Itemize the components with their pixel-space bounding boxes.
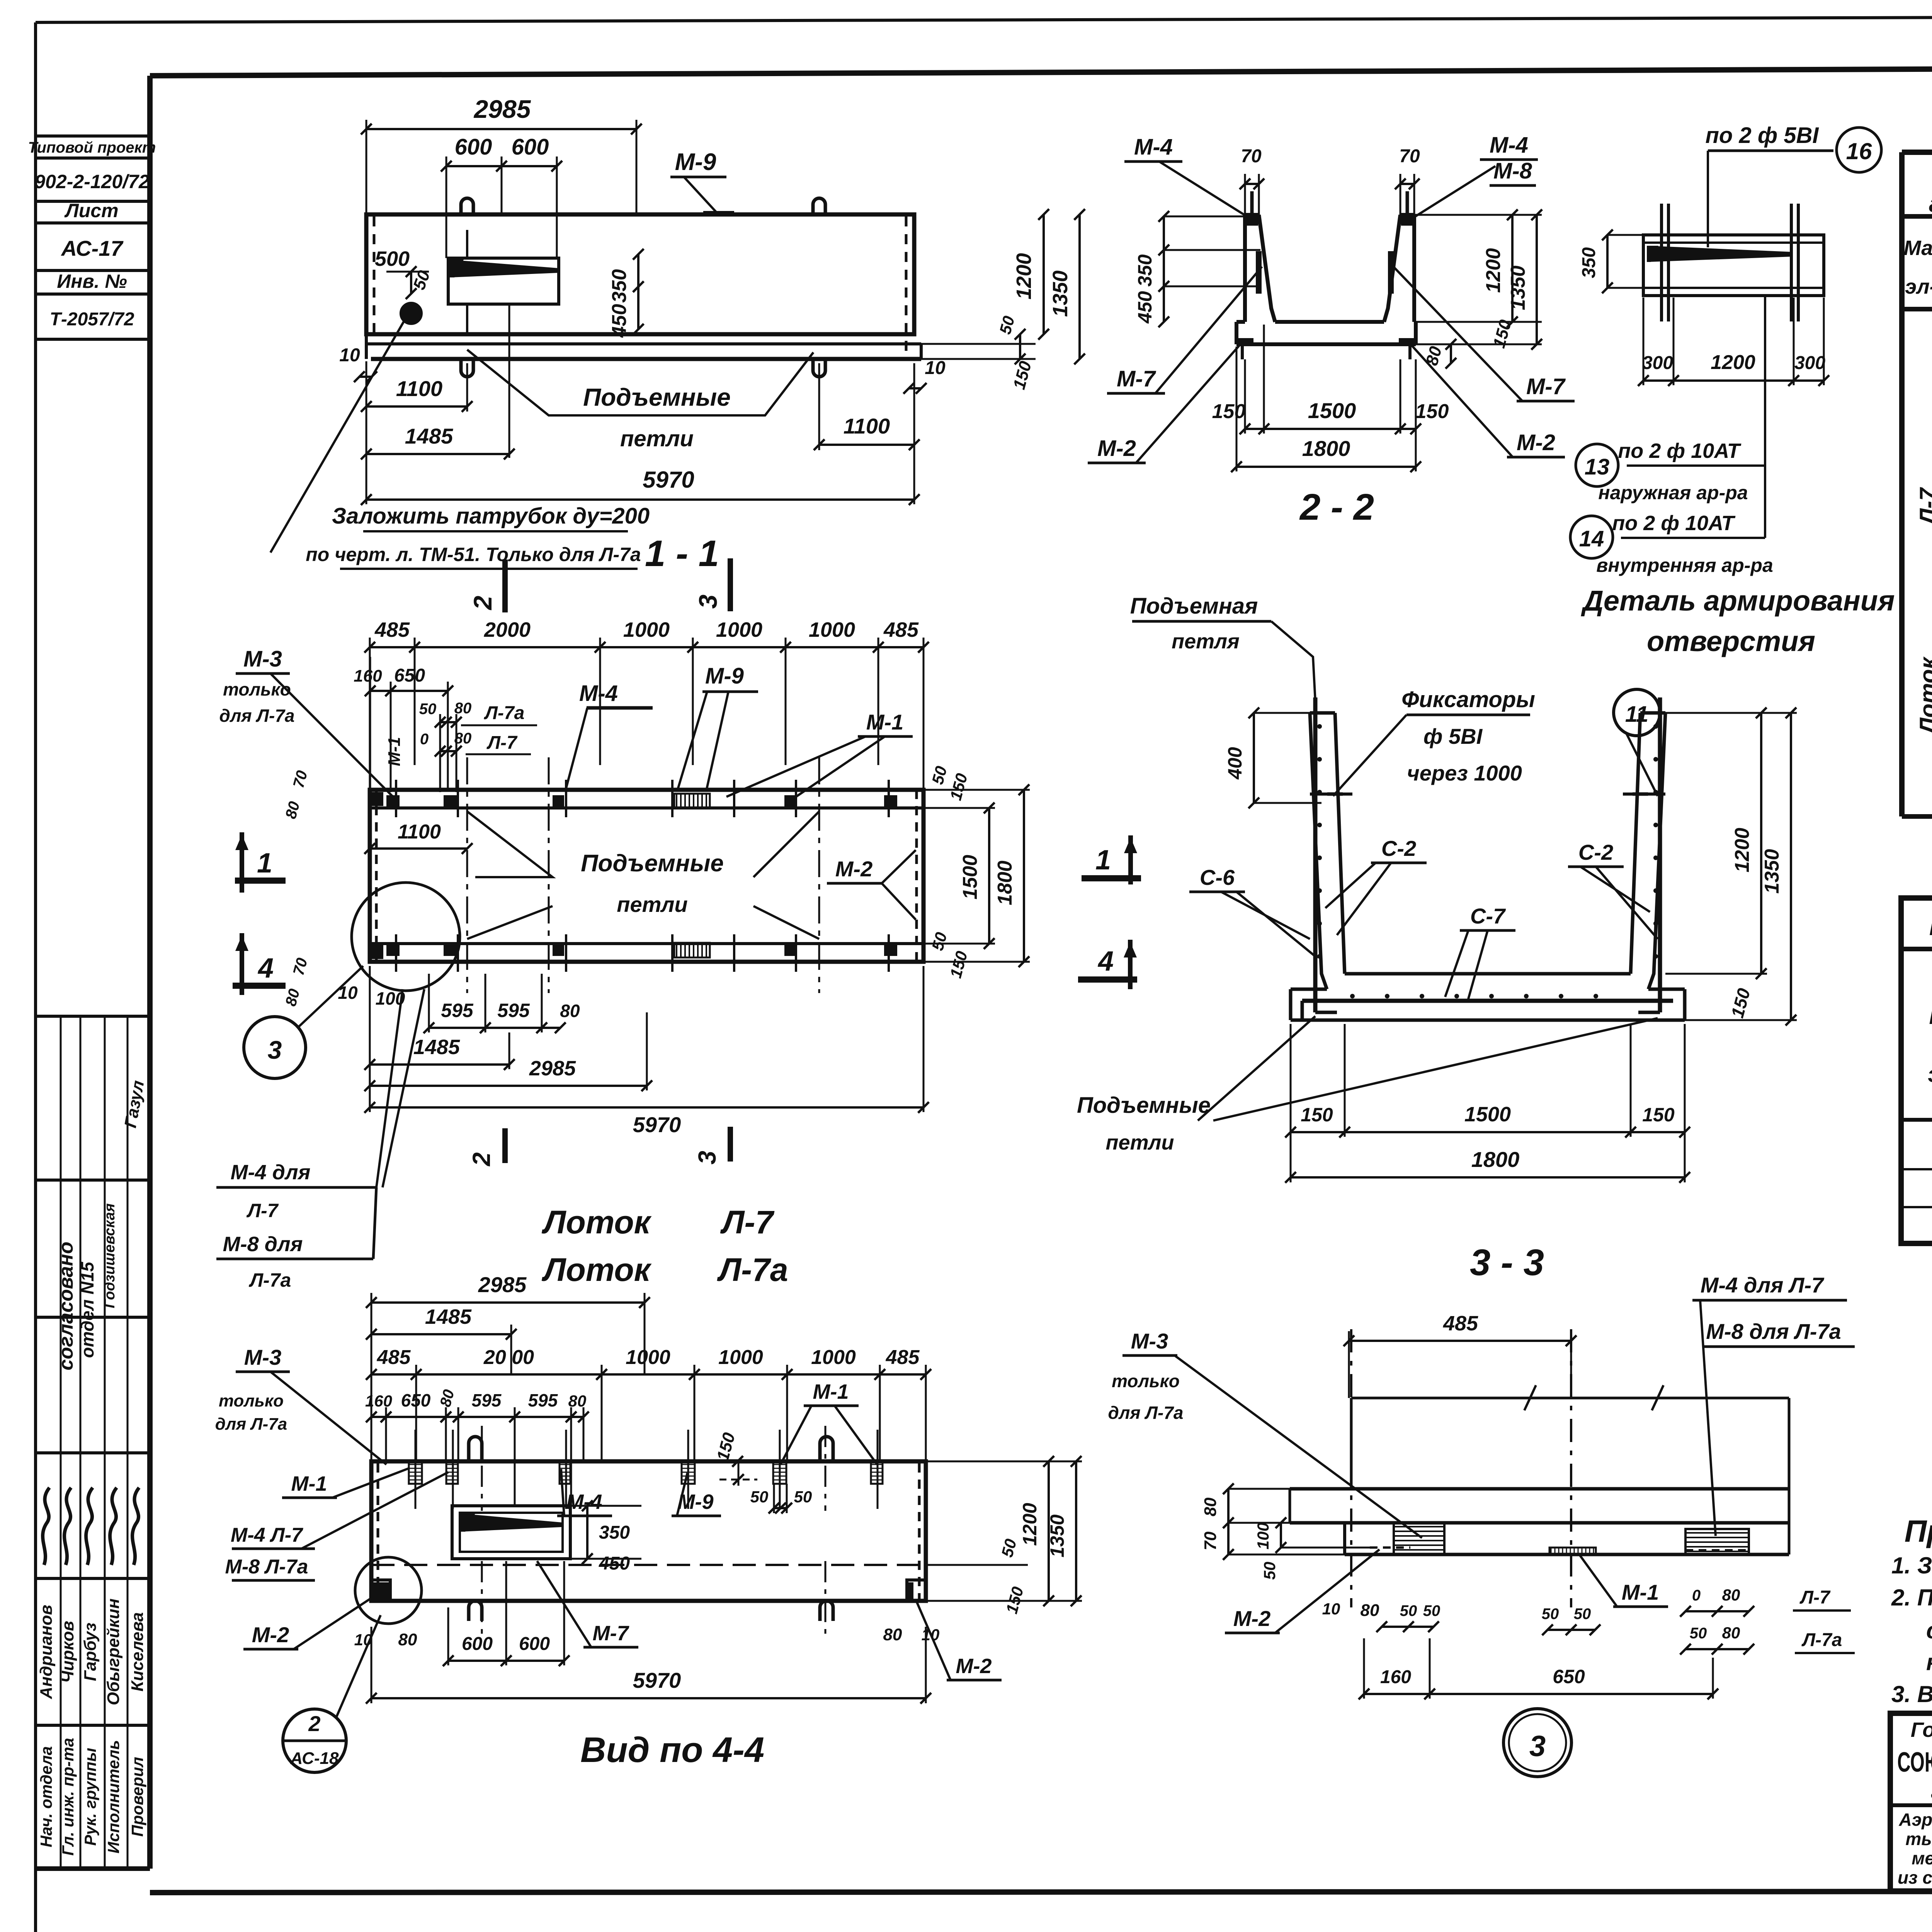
svg-text:Л-7: Л-7 xyxy=(486,733,518,753)
plan view: left labels M-3 M-1 xyxy=(219,646,404,798)
svg-text:Рук. группы: Рук. группы xyxy=(81,1748,99,1846)
svg-text:М-9: М-9 xyxy=(705,663,744,689)
svg-text:1000: 1000 xyxy=(716,618,762,641)
svg-text:3. В местах отверстий: 3. В местах отверстий арматуру сеток обр… xyxy=(1891,1681,1932,1707)
plan view: small rotated dims 70 80 left xyxy=(282,769,311,1008)
svg-text:1200: 1200 xyxy=(1012,253,1036,299)
svg-text:3: 3 xyxy=(268,1036,282,1064)
left stamp: roles rotated xyxy=(37,1738,146,1856)
svg-text:600: 600 xyxy=(519,1634,550,1654)
svg-text:Л-7: Л-7 xyxy=(247,1200,279,1221)
plan view: podjemnye petli label with leaders xyxy=(467,811,819,939)
svg-text:М-3: М-3 xyxy=(243,646,282,672)
section 3-3: dim 400 left xyxy=(1224,707,1321,808)
view 1-1: dims 350 450 at opening xyxy=(608,249,644,338)
svg-text:Обыгрейкин: Обыгрейкин xyxy=(104,1599,123,1706)
svg-text:М-2: М-2 xyxy=(252,1622,289,1647)
svg-text:902-2-120/72: 902-2-120/72 xyxy=(34,171,150,192)
svg-text:1200: 1200 xyxy=(1711,351,1755,374)
svg-text:петли: петли xyxy=(617,892,687,917)
view 1-1: dims 600 600 xyxy=(441,134,562,258)
svg-text:Годзишевская: Годзишевская xyxy=(102,1203,118,1308)
svg-text:485: 485 xyxy=(886,1346,920,1369)
svg-text:1350: 1350 xyxy=(1049,270,1072,317)
svg-text:3: 3 xyxy=(694,595,722,609)
svg-text:500: 500 xyxy=(375,247,410,270)
svg-text:50: 50 xyxy=(1423,1602,1440,1619)
plan view: mesh ticks and plates bottom wall xyxy=(372,934,897,972)
svg-text:отдел N15: отдел N15 xyxy=(77,1261,97,1358)
section 3-3: mesh bars with dots xyxy=(1302,697,1673,1020)
svg-text:3: 3 xyxy=(1529,1730,1546,1763)
svg-text:1500: 1500 xyxy=(1464,1103,1511,1126)
svg-text:1000: 1000 xyxy=(811,1346,856,1369)
svg-text:1000: 1000 xyxy=(626,1346,670,1369)
svg-text:1200: 1200 xyxy=(1482,248,1505,293)
view 1-1: label M-9 with leader xyxy=(670,149,734,216)
svg-text:1800: 1800 xyxy=(994,861,1016,905)
section 2-2: left dims 350 450 xyxy=(1134,211,1260,327)
svg-text:Гарбуз: Гарбуз xyxy=(81,1622,100,1681)
svg-text:2: 2 xyxy=(308,1711,320,1736)
svg-text:С-6: С-6 xyxy=(1200,865,1235,889)
svg-text:450: 450 xyxy=(599,1553,630,1574)
opening reinforcement detail: label po 2 f 5BI and circle 16 xyxy=(1705,123,1881,247)
plan view: top dim row 485 2000 1000 1000 1000 485 xyxy=(364,618,929,790)
section 2-2: embedded parts black marks xyxy=(1238,191,1414,359)
svg-text:1200: 1200 xyxy=(1731,828,1753,872)
plan view: labels M-4 M-9 M-1 top xyxy=(566,663,913,797)
table vyborka armaturnykh i zakladnykh izdeliy xyxy=(1902,152,1932,828)
svg-text:70: 70 xyxy=(1399,146,1420,167)
svg-text:50: 50 xyxy=(1690,1625,1707,1642)
svg-text:350: 350 xyxy=(599,1522,630,1543)
svg-text:Марка: Марка xyxy=(1929,1004,1932,1029)
svg-text:для Л-7а: для Л-7а xyxy=(1108,1403,1183,1423)
opening reinforcement detail: circles 13 14 with texts xyxy=(1570,296,1773,576)
opening reinforcement detail: caption xyxy=(1580,585,1895,657)
detail 3: labels M-4 M-8 top right xyxy=(1692,1273,1855,1536)
svg-text:595: 595 xyxy=(528,1390,558,1410)
plan view: right dims 50 150 1500 1800 xyxy=(923,764,1030,980)
section 2-2: caption xyxy=(1299,486,1374,528)
view 4-4: right dims 1200 1350 50 150 xyxy=(926,1456,1082,1616)
svg-text:Л-7а: Л-7а xyxy=(484,703,524,723)
svg-text:600: 600 xyxy=(512,134,549,160)
plan view: detail circle on corner xyxy=(352,883,460,991)
svg-text:1500: 1500 xyxy=(1308,398,1356,423)
svg-text:М-2: М-2 xyxy=(1097,436,1136,461)
svg-text:1000: 1000 xyxy=(809,618,855,641)
svg-text:150: 150 xyxy=(1301,1104,1333,1126)
svg-text:Типовой проект: Типовой проект xyxy=(28,139,156,156)
svg-text:350: 350 xyxy=(1134,254,1156,287)
svg-text:М-7: М-7 xyxy=(1117,366,1156,391)
svg-text:80: 80 xyxy=(398,1630,417,1649)
svg-text:по 2 ф 10АТ: по 2 ф 10АТ xyxy=(1612,512,1735,535)
svg-text:150: 150 xyxy=(1212,400,1246,423)
svg-text:М-1: М-1 xyxy=(813,1380,849,1403)
svg-text:Примечания: Примечания xyxy=(1905,1514,1932,1548)
svg-text:эл-та: эл-та xyxy=(1928,1062,1932,1087)
svg-text:1. Защитный слой бето: 1. Защитный слой бетона - 20 мм xyxy=(1891,1553,1932,1578)
svg-text:2 - 2: 2 - 2 xyxy=(1299,486,1374,528)
svg-text:петли: петли xyxy=(1106,1131,1174,1154)
view 4-4: dashed mid line xyxy=(371,1564,926,1566)
svg-text:1350: 1350 xyxy=(1507,265,1529,310)
plan view: bottom dims 1485 2985 5970 xyxy=(364,966,929,1137)
svg-text:10: 10 xyxy=(339,345,360,366)
svg-text:11: 11 xyxy=(1625,702,1648,727)
svg-text:20 00: 20 00 xyxy=(483,1346,534,1369)
svg-text:2000: 2000 xyxy=(484,618,531,641)
svg-text:отверстия: отверстия xyxy=(1647,625,1815,657)
section 3-3: channel with reinforcement xyxy=(1291,713,1685,1020)
svg-text:50: 50 xyxy=(794,1488,812,1506)
svg-text:450: 450 xyxy=(1134,291,1156,324)
svg-text:1100: 1100 xyxy=(398,821,441,843)
svg-text:650: 650 xyxy=(1553,1666,1585,1687)
section 2-2: right dims 1200 1350 150 80 xyxy=(1414,209,1542,369)
svg-text:450: 450 xyxy=(608,304,631,338)
svg-text:М-2: М-2 xyxy=(956,1655,992,1678)
svg-text:М-8 для: М-8 для xyxy=(223,1233,303,1256)
svg-text:Аэротенки- смесители че-: Аэротенки- смесители че- xyxy=(1898,1810,1932,1830)
svg-text:из сборного железобетона.: из сборного железобетона. xyxy=(1898,1867,1932,1888)
svg-text:Л-7: Л-7 xyxy=(1915,487,1932,526)
svg-text:1100: 1100 xyxy=(396,376,442,401)
svg-text:внутренняя ар-ра: внутренняя ар-ра xyxy=(1596,554,1773,576)
svg-text:160: 160 xyxy=(1380,1667,1411,1687)
svg-text:16: 16 xyxy=(1846,138,1872,164)
svg-text:только: только xyxy=(1112,1371,1180,1391)
svg-text:1200: 1200 xyxy=(1019,1503,1041,1546)
svg-text:Лоток: Лоток xyxy=(541,1252,652,1288)
svg-text:Исполнитель: Исполнитель xyxy=(104,1740,122,1854)
svg-text:485: 485 xyxy=(377,1346,411,1369)
svg-text:80: 80 xyxy=(1361,1601,1379,1620)
detail 3: hatched plates xyxy=(1370,1523,1749,1554)
svg-text:600: 600 xyxy=(462,1634,493,1654)
svg-text:1000: 1000 xyxy=(623,618,670,641)
svg-text:50: 50 xyxy=(419,701,437,718)
section 2-2: top dims 70 70 xyxy=(1240,146,1420,215)
view 1-1: right dims 1200 1350 50 150 xyxy=(921,209,1085,391)
svg-text:70: 70 xyxy=(1241,146,1262,167)
svg-text:400: 400 xyxy=(1224,747,1246,780)
detail 3: beam fragment xyxy=(1290,1385,1789,1554)
opening reinforcement detail: vertical bars xyxy=(1662,204,1798,321)
view 4-4: beam outline xyxy=(371,1461,926,1601)
svg-text:1800: 1800 xyxy=(1302,436,1350,461)
svg-text:петля: петля xyxy=(1172,630,1240,653)
svg-text:по 2 ф 10АТ: по 2 ф 10АТ xyxy=(1618,439,1741,463)
view 4-4: top plates and loops xyxy=(409,1426,883,1634)
svg-text:М-4: М-4 xyxy=(1490,133,1528,158)
svg-text:М-1: М-1 xyxy=(866,710,903,734)
svg-text:Деталь армирования: Деталь армирования xyxy=(1580,585,1895,617)
svg-text:Госстрой: Госстрой xyxy=(1911,1718,1932,1742)
svg-text:80: 80 xyxy=(560,1001,580,1021)
view 1-1: dim 2985 top xyxy=(361,95,642,216)
svg-text:50: 50 xyxy=(1400,1602,1417,1619)
svg-text:наружная ар-ра: наружная ар-ра xyxy=(1598,482,1748,503)
plan view: bottom dims 10 100 595 595 80 xyxy=(338,974,580,1033)
svg-text:ф 5ВI: ф 5ВI xyxy=(1423,724,1483,748)
svg-text:М-4: М-4 xyxy=(1134,134,1173,160)
section 3-3: fixatory label and circle 11 xyxy=(1333,687,1660,796)
svg-text:М-8 Л-7а: М-8 Л-7а xyxy=(225,1556,308,1578)
svg-text:1100: 1100 xyxy=(844,414,890,438)
svg-text:2985: 2985 xyxy=(478,1272,527,1297)
svg-text:М-9: М-9 xyxy=(675,149,716,175)
svg-text:М-2: М-2 xyxy=(1233,1606,1270,1631)
svg-text:С-7: С-7 xyxy=(1470,904,1506,928)
svg-text:80: 80 xyxy=(1722,1586,1740,1604)
svg-text:М-2: М-2 xyxy=(1517,430,1555,455)
section 2-2: labels M-4 M-8 M-7 M-2 xyxy=(1088,133,1575,463)
view 4-4: dim row 160 650 80 595 595 80 xyxy=(365,1388,589,1506)
detail 3: labels M-3 M-2 M-1 xyxy=(1108,1329,1668,1633)
left stamp: approval strip grid xyxy=(37,1016,152,1869)
svg-text:2985: 2985 xyxy=(473,95,531,123)
view 4-4: caption xyxy=(580,1730,764,1770)
note 2 xyxy=(1891,1585,1932,1675)
view 4-4: dim 5970 bottom xyxy=(366,1627,931,1704)
svg-text:150: 150 xyxy=(1642,1104,1675,1126)
svg-text:50: 50 xyxy=(1542,1605,1559,1622)
svg-text:М-4 Л-7: М-4 Л-7 xyxy=(231,1524,303,1546)
svg-text:для Л-7а: для Л-7а xyxy=(219,706,294,726)
table vyborka: rotated element marks xyxy=(1915,470,1932,735)
opening reinforcement detail: frame xyxy=(1643,235,1824,296)
svg-text:5970: 5970 xyxy=(643,467,694,493)
svg-text:595: 595 xyxy=(472,1390,502,1410)
view 1-1: opening with black wedge xyxy=(448,258,559,304)
svg-text:3 - 3: 3 - 3 xyxy=(1470,1242,1544,1283)
svg-text:150: 150 xyxy=(1415,400,1449,423)
detail 3: dim 485 top xyxy=(1344,1312,1577,1398)
svg-text:1485: 1485 xyxy=(413,1036,460,1059)
svg-text:Лист: Лист xyxy=(64,200,118,221)
svg-text:Подъемные: Подъемные xyxy=(581,850,724,877)
opening reinforcement detail: bottom dims 300 1200 300 xyxy=(1638,298,1829,386)
plan view: captions Lotok L-7 L-7a xyxy=(541,1204,788,1288)
svg-text:2: 2 xyxy=(468,595,497,611)
svg-text:160: 160 xyxy=(354,667,382,685)
svg-text:1350: 1350 xyxy=(1761,849,1783,894)
svg-text:Т-2057/72: Т-2057/72 xyxy=(50,309,134,330)
svg-text:Фиксаторы: Фиксаторы xyxy=(1401,687,1535,712)
svg-text:0: 0 xyxy=(1692,1587,1701,1604)
svg-text:по черт. л. ТМ-51. Только для: по черт. л. ТМ-51. Только для Л-7а xyxy=(306,544,641,565)
svg-text:СОЮЗВОДОКАНАЛПРОЕКТ: СОЮЗВОДОКАНАЛПРОЕКТ xyxy=(1897,1747,1932,1778)
view 4-4: dim row 485 2000 1000 1000 1000 485 xyxy=(366,1346,931,1461)
svg-text:5970: 5970 xyxy=(633,1112,681,1137)
plan view: side section marks 1 and 4 left xyxy=(233,832,286,995)
svg-text:50: 50 xyxy=(1574,1605,1591,1622)
svg-text:согласовано: согласовано xyxy=(55,1242,77,1370)
svg-text:Чирков: Чирков xyxy=(58,1621,77,1683)
detail 3: circle 3 caption xyxy=(1503,1709,1571,1777)
svg-text:70: 70 xyxy=(1201,1531,1220,1550)
svg-text:50: 50 xyxy=(750,1488,769,1506)
left stamp: signatures squiggles xyxy=(43,1488,139,1565)
detail 3: left dims 80 100 70 50 xyxy=(1201,1483,1370,1580)
svg-text:М-1: М-1 xyxy=(291,1472,327,1495)
svg-text:Заложить патрубок ду=200: Заложить патрубок ду=200 xyxy=(332,503,650,529)
svg-text:М-3: М-3 xyxy=(244,1345,281,1369)
plan view: centerlines verticals xyxy=(467,757,819,993)
svg-text:Проверил: Проверил xyxy=(128,1757,146,1837)
view 4-4: labels M-4 M-9 M-1 top middle xyxy=(557,1380,877,1516)
title block frame xyxy=(1890,1713,1932,1891)
svg-text:только: только xyxy=(219,1391,284,1410)
svg-text:М-4 для Л-7: М-4 для Л-7 xyxy=(1701,1273,1825,1297)
section 3-3: labels C-2 C-2 C-6 C-7 xyxy=(1189,836,1658,999)
plan view: M-2 label xyxy=(827,850,916,920)
svg-text:2. Подъем лотка за ве: 2. Подъем лотка за верхние петли осущест… xyxy=(1891,1585,1932,1611)
label podjemnaya petlya above 3-3 xyxy=(1130,594,1315,701)
svg-text:595: 595 xyxy=(441,1000,474,1021)
svg-text:Инв. №: Инв. № xyxy=(57,270,127,292)
svg-text:14: 14 xyxy=(1579,526,1604,551)
svg-text:М-3: М-3 xyxy=(1131,1329,1168,1353)
svg-text:485: 485 xyxy=(883,618,919,641)
note 1 xyxy=(1891,1553,1932,1578)
svg-text:С-2: С-2 xyxy=(1381,836,1416,861)
title block left: organization xyxy=(1890,1718,1932,1888)
svg-text:Андрианов: Андрианов xyxy=(37,1605,56,1699)
svg-text:1500: 1500 xyxy=(959,855,981,900)
plan view: leaders to M-4 M-8 callout box xyxy=(216,989,424,1291)
svg-text:1800: 1800 xyxy=(1471,1147,1520,1172)
svg-text:13: 13 xyxy=(1585,454,1610,480)
view 4-4: detail circle bottom left xyxy=(355,1557,422,1624)
svg-text:Подъемные: Подъемные xyxy=(1077,1093,1211,1118)
svg-text:петли: петли xyxy=(620,426,694,451)
view 1-1: note text zalozhit patrubok xyxy=(270,317,650,569)
view 1-1: pipe hole xyxy=(401,303,421,323)
svg-text:М-1: М-1 xyxy=(1622,1580,1659,1604)
svg-text:через 1000: через 1000 xyxy=(1407,761,1522,785)
svg-text:1350: 1350 xyxy=(1046,1514,1068,1557)
section 3-3: caption xyxy=(1470,1242,1544,1283)
svg-text:Выборка: Выборка xyxy=(1929,911,1932,941)
plan view: side section marks 1 and 4 right xyxy=(1078,835,1141,989)
svg-text:2985: 2985 xyxy=(529,1057,576,1080)
svg-text:300: 300 xyxy=(1794,353,1825,373)
svg-text:650: 650 xyxy=(401,1390,431,1410)
svg-text:595: 595 xyxy=(497,1000,530,1021)
svg-text:по 2 ф 5ВI: по 2 ф 5ВI xyxy=(1705,123,1819,148)
svg-text:Киселева: Киселева xyxy=(128,1612,147,1691)
view 4-4: labels M-3 M-1 M-4 M-8 M-2 left xyxy=(215,1345,448,1649)
svg-text:2: 2 xyxy=(468,1152,495,1167)
notes primechaniya header xyxy=(1905,1514,1932,1548)
svg-text:50: 50 xyxy=(1260,1562,1279,1580)
svg-text:650: 650 xyxy=(394,665,425,686)
view 1-1: caption 1-1 xyxy=(645,533,719,574)
svg-text:0: 0 xyxy=(420,731,429,748)
svg-text:М-2: М-2 xyxy=(835,857,872,881)
svg-text:М-7: М-7 xyxy=(593,1622,630,1645)
opening reinforcement detail: dim 350 left xyxy=(1579,230,1642,293)
svg-text:М-1: М-1 xyxy=(385,737,404,766)
svg-text:100: 100 xyxy=(1254,1522,1272,1549)
detail 3: bottom dims xyxy=(1322,1586,1855,1699)
section 2-2: bottom dims 150 1500 150 1800 xyxy=(1212,325,1449,472)
view 4-4: top dims 2985 1485 xyxy=(366,1272,650,1461)
svg-text:Л-7а: Л-7а xyxy=(1801,1630,1842,1650)
svg-text:Подъемная: Подъемная xyxy=(1130,594,1258,619)
plan view: sub dims 160 650 / 50 80 / 0 80 xyxy=(354,657,537,792)
svg-text:мера коридора 9×5,2-120: мера коридора 9×5,2-120 xyxy=(1912,1848,1932,1868)
svg-text:Л-7: Л-7 xyxy=(1799,1587,1831,1608)
svg-text:80: 80 xyxy=(568,1392,587,1410)
section marks 2 and 3 between views xyxy=(468,558,730,612)
plan view: circle 3 callout xyxy=(244,966,363,1078)
svg-text:Лоток: Лоток xyxy=(1915,656,1932,735)
view 1-1: beam outline xyxy=(366,214,921,359)
left stamp table: project info xyxy=(28,136,156,339)
view 4-4: circle 2/AC-18 xyxy=(283,1615,381,1772)
svg-text:1485: 1485 xyxy=(405,424,453,448)
section 3-3: podjemnye petli label bottom left xyxy=(1077,1016,1658,1154)
note 3 xyxy=(1891,1681,1932,1707)
svg-text:4: 4 xyxy=(1097,946,1114,977)
svg-text:специальной траверсой не: специальной траверсой не допуская переда… xyxy=(1926,1617,1932,1643)
left stamp: approval rotated texts xyxy=(55,1079,148,1370)
section 3-3: bottom dims 150 1500 150 1800 xyxy=(1285,1024,1690,1183)
left stamp: names rotated xyxy=(37,1599,147,1706)
svg-text:тырехкоридорные с раз-: тырехкоридорные с раз- xyxy=(1905,1829,1932,1849)
svg-text:М-8: М-8 xyxy=(1493,158,1532,184)
section 3-3: right dims 1200 1350 150 xyxy=(1665,707,1797,1026)
detail 3: centerlines dashed xyxy=(1351,1329,1571,1607)
svg-text:Л-7а: Л-7а xyxy=(249,1269,291,1291)
svg-text:1485: 1485 xyxy=(425,1305,472,1328)
svg-text:350: 350 xyxy=(1579,247,1599,278)
view 4-4: opening with wedge xyxy=(452,1506,570,1559)
svg-text:600: 600 xyxy=(455,134,492,160)
svg-text:80: 80 xyxy=(1722,1624,1740,1642)
svg-text:300: 300 xyxy=(1642,353,1673,373)
plan view: dim 1100 inside xyxy=(364,821,473,854)
svg-text:Вид по 4-4: Вид по 4-4 xyxy=(580,1730,764,1770)
svg-text:485: 485 xyxy=(1443,1312,1478,1335)
svg-text:АС-17: АС-17 xyxy=(60,236,124,260)
plan view: bottom section marks 2 3 xyxy=(468,1127,730,1167)
svg-text:160: 160 xyxy=(365,1392,392,1410)
svg-text:М-7: М-7 xyxy=(1526,374,1566,399)
svg-text:на стенки лотка.: на стенки лотка. xyxy=(1926,1649,1932,1675)
svg-text:для Л-7а: для Л-7а xyxy=(215,1415,287,1434)
view 4-4: bottom labels and dims xyxy=(354,1561,1002,1680)
svg-text:1: 1 xyxy=(1095,845,1111,876)
svg-text:М-4: М-4 xyxy=(579,681,618,706)
svg-text:1: 1 xyxy=(257,848,272,879)
svg-text:Л-7: Л-7 xyxy=(720,1204,775,1240)
section 2-2: channel outline xyxy=(1236,215,1416,344)
svg-text:АС-18: АС-18 xyxy=(290,1749,339,1768)
view 1-1: podjemnye petli label xyxy=(467,350,813,451)
svg-text:350: 350 xyxy=(608,269,631,303)
svg-text:Лоток: Лоток xyxy=(541,1204,652,1240)
view 1-1: dim 500 + 50 at hole xyxy=(375,247,434,299)
view 1-1: bottom dims 10 1100 1485 1100 5970 xyxy=(339,305,946,505)
svg-text:80: 80 xyxy=(1201,1497,1220,1516)
